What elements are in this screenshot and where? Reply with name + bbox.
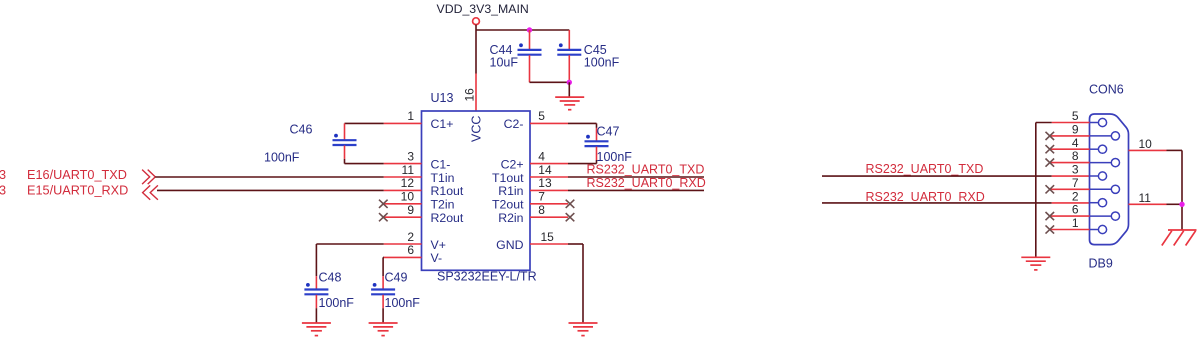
pin 9 stub of CON6 xyxy=(1051,135,1090,137)
svg-text:C1+: C1+ xyxy=(431,117,454,131)
pin 12 stub of U13 xyxy=(384,189,422,191)
CON6 pin 3 internal lead xyxy=(1090,175,1099,177)
svg-text:C48: C48 xyxy=(319,271,342,285)
capacitor C44 bottom leg xyxy=(529,55,531,82)
svg-text:3: 3 xyxy=(0,183,6,197)
capacitor C46 xyxy=(333,134,357,145)
wire C49 vertical xyxy=(382,257,384,276)
pin 10 stub of U13 xyxy=(383,203,421,205)
CON6 pin 2 circle xyxy=(1098,199,1106,207)
no-connect X on CON6 pin 6 xyxy=(1046,212,1055,220)
svg-text:2: 2 xyxy=(1072,189,1079,203)
svg-text:V-: V- xyxy=(431,251,443,265)
CON6 pin 6 circle xyxy=(1111,212,1119,220)
capacitor C48 bottom leg xyxy=(315,295,317,308)
wire net RS232_UART0_RXD to CON6 pin 2 xyxy=(822,202,1052,204)
wire pin 1 to C46 xyxy=(345,122,384,124)
svg-text:CON6: CON6 xyxy=(1089,83,1124,97)
svg-text:E16/UART0_TXD: E16/UART0_TXD xyxy=(27,168,127,182)
wire between C44 and C45 bottoms xyxy=(530,81,570,83)
wire CON6 pin 5 vertical to ground xyxy=(1035,123,1037,258)
wire C47 bottom vertical xyxy=(596,160,598,164)
svg-text:6: 6 xyxy=(407,243,414,257)
pin 11 stub of CON6 xyxy=(1129,203,1167,205)
pin 7 stub of U13 xyxy=(530,203,568,205)
svg-text:DB9: DB9 xyxy=(1089,257,1113,271)
wire C48 vertical xyxy=(315,244,317,276)
svg-text:13: 13 xyxy=(538,176,552,190)
capacitor C44 xyxy=(518,43,542,54)
CON6 pin 8 circle xyxy=(1111,159,1119,167)
pin 15 stub of U13 xyxy=(530,243,568,245)
svg-text:10uF: 10uF xyxy=(490,56,519,70)
svg-text:7: 7 xyxy=(538,190,545,204)
no-connect X on CON6 pin 7 xyxy=(1046,185,1055,193)
pin 5 stub of U13 xyxy=(530,122,568,124)
svg-text:E15/UART0_RXD: E15/UART0_RXD xyxy=(27,183,128,197)
svg-text:U13: U13 xyxy=(431,91,454,105)
svg-text:3: 3 xyxy=(1072,163,1079,177)
capacitor C49 xyxy=(371,283,395,294)
wire C48 to ground xyxy=(315,308,317,323)
svg-text:14: 14 xyxy=(538,163,552,177)
capacitor C47 xyxy=(585,135,609,146)
svg-text:12: 12 xyxy=(401,176,415,190)
ground symbol below C49 xyxy=(369,323,398,336)
svg-text:T2out: T2out xyxy=(492,198,524,212)
svg-text:R2out: R2out xyxy=(431,211,464,225)
svg-text:V+: V+ xyxy=(431,238,446,252)
junction at C44 branch xyxy=(527,27,532,32)
ground symbol below C44 C45 xyxy=(555,97,584,110)
CON6 pin 5 internal lead xyxy=(1090,122,1099,124)
power symbol VDD_3V3_MAIN open circle xyxy=(473,18,480,25)
capacitor C47 bottom leg xyxy=(596,147,598,160)
svg-text:C47: C47 xyxy=(597,125,620,139)
capacitor C44 top leg xyxy=(529,30,531,50)
capacitor C48 xyxy=(304,283,328,294)
pin 9 stub of U13 xyxy=(383,216,421,218)
wire C47 to pin 4 xyxy=(568,163,597,165)
svg-text:11: 11 xyxy=(1139,191,1152,205)
svg-text:VCC: VCC xyxy=(469,116,483,142)
svg-text:R2in: R2in xyxy=(498,211,523,225)
CON6 pin 2 internal lead xyxy=(1090,202,1099,204)
CON6 pin 4 circle xyxy=(1098,145,1106,153)
junction at C45 bottom xyxy=(567,80,572,85)
capacitor C45 xyxy=(557,43,581,54)
wire net RS232_UART0_TXD to CON6 pin 3 xyxy=(822,175,1052,177)
off-page connector RXD chevrons xyxy=(143,185,158,199)
svg-text:4: 4 xyxy=(538,149,545,163)
pin 8 stub of CON6 xyxy=(1051,162,1090,164)
CON6 pin 3 circle xyxy=(1098,172,1106,180)
svg-text:9: 9 xyxy=(407,203,414,217)
svg-text:10: 10 xyxy=(401,190,415,204)
svg-text:RS232_UART0_RXD: RS232_UART0_RXD xyxy=(587,176,706,190)
svg-text:C46: C46 xyxy=(290,123,313,137)
pin 4 stub of CON6 xyxy=(1051,148,1090,150)
svg-text:C2-: C2- xyxy=(504,117,524,131)
svg-text:GND: GND xyxy=(496,238,523,252)
pin 5 stub of CON6 xyxy=(1052,122,1090,124)
CON6 pin 9 internal lead xyxy=(1090,135,1112,137)
svg-text:T1out: T1out xyxy=(492,171,524,185)
svg-text:SP3232EEY-L/TR: SP3232EEY-L/TR xyxy=(437,270,537,284)
capacitor C46 top leg xyxy=(344,123,346,140)
pin 6 stub of CON6 xyxy=(1051,215,1090,217)
no-connect X on CON6 pin 8 xyxy=(1046,159,1055,167)
svg-text:C2+: C2+ xyxy=(501,157,524,171)
pin 8 stub of U13 xyxy=(530,216,568,218)
svg-text:RS232_UART0_RXD: RS232_UART0_RXD xyxy=(866,190,985,204)
pin 6 stub of U13 xyxy=(384,256,422,258)
no-connect X on pin 9 xyxy=(379,213,388,221)
wire net UART0_TXD to pin 11 xyxy=(155,176,383,178)
wire pin 11 horizontal xyxy=(1167,203,1183,205)
pin 1 stub of CON6 xyxy=(1051,229,1090,231)
no-connect X on CON6 pin 4 xyxy=(1046,145,1055,153)
svg-text:C49: C49 xyxy=(385,271,408,285)
svg-text:VDD_3V3_MAIN: VDD_3V3_MAIN xyxy=(437,2,529,16)
capacitor C45 top leg xyxy=(568,30,570,50)
svg-text:8: 8 xyxy=(1072,149,1079,163)
no-connect X on CON6 pin 1 xyxy=(1046,225,1055,233)
svg-text:T1in: T1in xyxy=(431,171,455,185)
no-connect X on pin 8 xyxy=(566,213,575,221)
svg-text:C1-: C1- xyxy=(431,157,451,171)
pin 7 stub of CON6 xyxy=(1051,188,1090,190)
wire pin 10 horizontal xyxy=(1167,149,1183,151)
pin 16 stub of U13 xyxy=(475,74,477,112)
wire C45 bottom to ground xyxy=(568,82,570,97)
wire GND vertical xyxy=(582,244,584,323)
svg-text:100nF: 100nF xyxy=(385,296,421,310)
svg-text:8: 8 xyxy=(538,203,545,217)
pin 10 stub of CON6 xyxy=(1129,149,1167,151)
svg-text:RS232_UART0_TXD: RS232_UART0_TXD xyxy=(866,162,984,176)
pin 3 stub of U13 xyxy=(384,163,422,165)
svg-text:2: 2 xyxy=(407,230,414,244)
svg-text:T2in: T2in xyxy=(431,198,455,212)
svg-text:7: 7 xyxy=(1072,176,1079,190)
CON6 pin 5 circle xyxy=(1098,118,1106,126)
wire shield vertical xyxy=(1181,150,1183,230)
CON6 pin 1 internal lead xyxy=(1090,229,1099,231)
wire pin 15 GND horizontal xyxy=(568,243,583,245)
svg-text:100nF: 100nF xyxy=(319,296,355,310)
capacitor C49 bottom leg xyxy=(382,295,384,308)
off-page connector TXD chevrons xyxy=(142,170,155,185)
svg-text:16: 16 xyxy=(462,88,476,102)
svg-text:100nF: 100nF xyxy=(584,56,620,70)
pin 14 stub of U13 xyxy=(530,176,568,178)
pin 4 stub of U13 xyxy=(530,163,568,165)
svg-text:R1in: R1in xyxy=(498,184,523,198)
ground symbol below pin 15 xyxy=(569,323,598,336)
pin 1 stub of U13 xyxy=(384,122,422,124)
no-connect X on pin 10 xyxy=(379,200,388,208)
svg-text:11: 11 xyxy=(402,163,415,177)
svg-text:RS232_UART0_TXD: RS232_UART0_TXD xyxy=(587,162,705,176)
wire C49 to ground xyxy=(382,308,384,323)
CON6 pin 1 circle xyxy=(1098,225,1106,233)
svg-text:3: 3 xyxy=(407,149,414,163)
CON6 pin 9 circle xyxy=(1111,132,1119,140)
wire C47 top vertical xyxy=(596,123,598,128)
wire CON6 pin 5 horizontal xyxy=(1036,122,1052,124)
capacitor C47 top leg xyxy=(596,128,598,141)
svg-text:5: 5 xyxy=(538,109,545,123)
wire net RS232_UART0_RXD from pin 13 xyxy=(568,189,704,191)
pin 2 stub of U13 xyxy=(384,243,422,245)
svg-text:9: 9 xyxy=(1072,123,1079,137)
wire C46 bottom vertical xyxy=(344,159,346,164)
svg-text:1: 1 xyxy=(1072,216,1079,230)
svg-text:15: 15 xyxy=(541,230,555,244)
wire pin 2 to C48 xyxy=(316,243,383,245)
no-connect X on pin 7 xyxy=(566,200,575,208)
svg-text:5: 5 xyxy=(1072,109,1079,123)
wire net RS232_UART0_TXD from pin 14 xyxy=(568,176,704,178)
pin 11 stub of U13 xyxy=(384,176,422,178)
wire pin 5 to C47 xyxy=(568,122,597,124)
CON6 pin 8 internal lead xyxy=(1090,162,1112,164)
ground symbol below C48 xyxy=(302,323,331,336)
wire C46 to pin 3 xyxy=(345,163,384,165)
pin 2 stub of CON6 xyxy=(1052,202,1090,204)
CON6 pin 7 internal lead xyxy=(1090,188,1112,190)
wire VDD vertical to IC pin 16 xyxy=(475,25,477,74)
capacitor C49 top leg xyxy=(382,276,384,289)
capacitor C46 bottom leg xyxy=(344,146,346,159)
wire VDD horizontal rail xyxy=(476,29,569,31)
svg-text:6: 6 xyxy=(1072,203,1079,217)
wire pin 6 to C49 xyxy=(382,256,385,258)
CON6 pin 4 internal lead xyxy=(1090,148,1099,150)
pin 3 stub of CON6 xyxy=(1052,175,1090,177)
CON6 pin 7 circle xyxy=(1111,185,1119,193)
CON6 pin 6 internal lead xyxy=(1090,215,1112,217)
wire net UART0_RXD to pin 12 xyxy=(157,189,384,191)
svg-text:4: 4 xyxy=(1072,136,1079,150)
ground symbol below CON6 pin 5 xyxy=(1021,257,1050,270)
junction at shield node xyxy=(1179,202,1184,207)
svg-text:100nF: 100nF xyxy=(264,151,300,165)
capacitor C48 top leg xyxy=(315,276,317,289)
IC U13 body xyxy=(422,111,531,270)
chassis ground symbol xyxy=(1162,230,1197,246)
svg-text:R1out: R1out xyxy=(431,184,464,198)
svg-text:3: 3 xyxy=(0,168,6,182)
no-connect X on CON6 pin 9 xyxy=(1046,132,1055,140)
pin 13 stub of U13 xyxy=(530,189,568,191)
capacitor C45 bottom leg xyxy=(568,55,570,82)
svg-text:1: 1 xyxy=(407,109,414,123)
svg-text:10: 10 xyxy=(1139,137,1153,151)
connector CON6 DB9 body xyxy=(1090,114,1129,245)
